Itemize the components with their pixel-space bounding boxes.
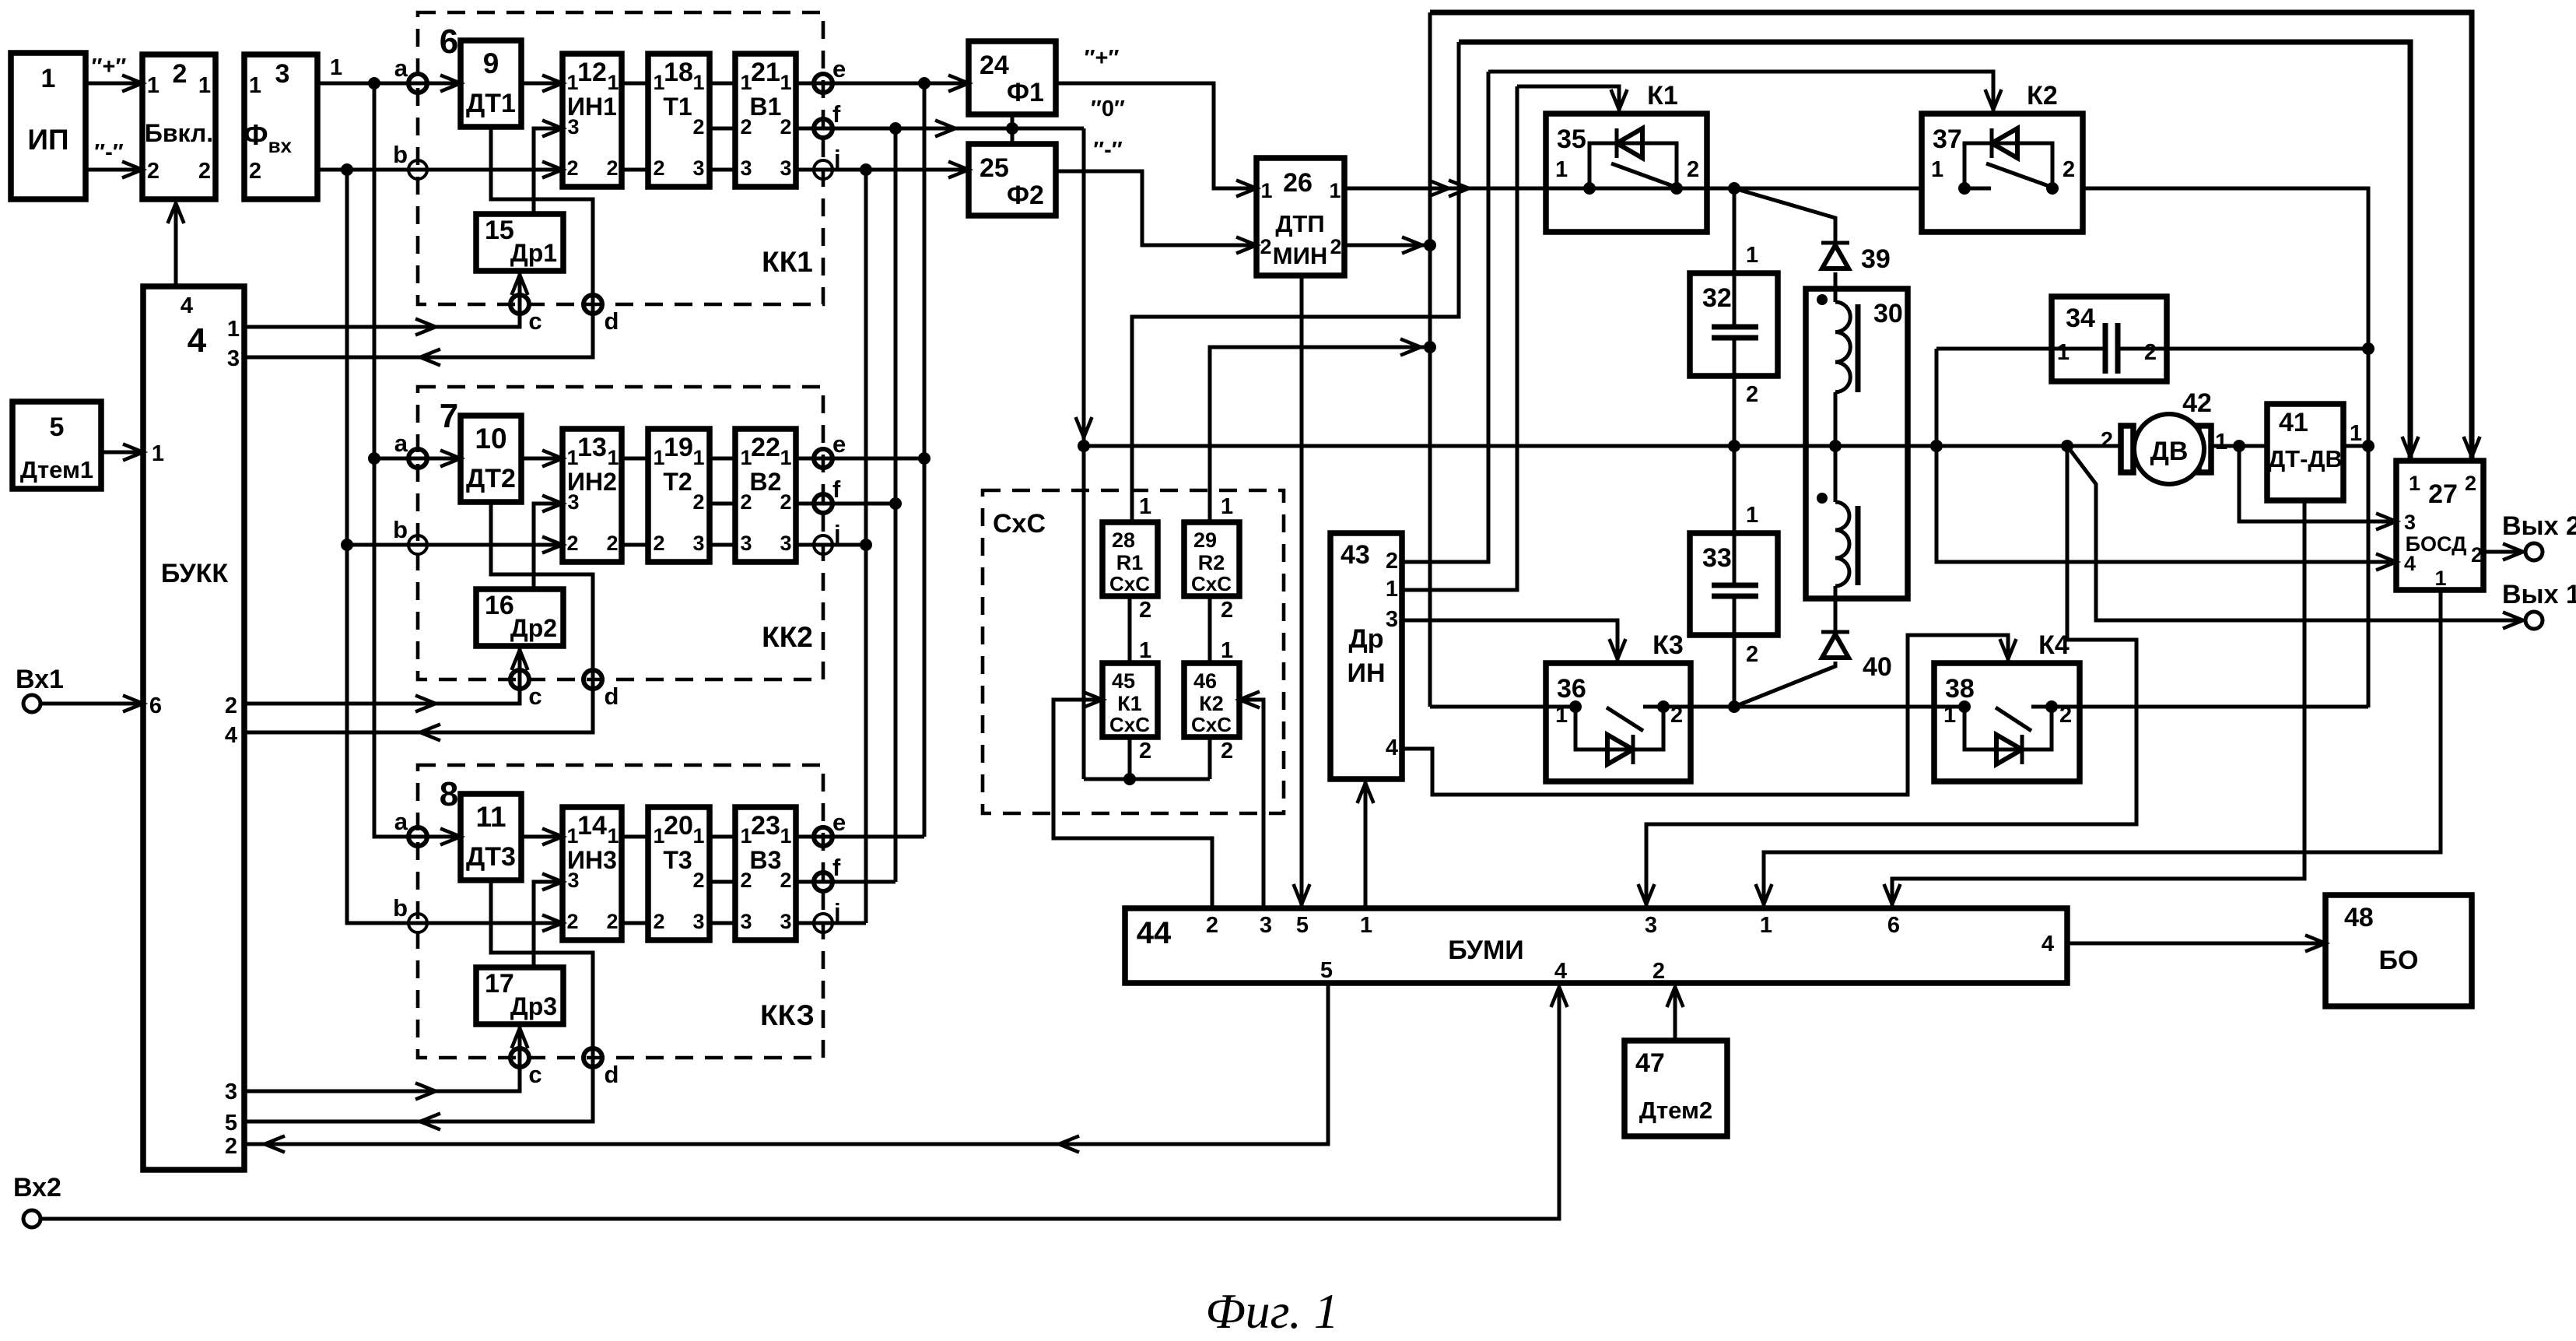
svg-text:25: 25	[980, 153, 1009, 183]
junction a-rail riser	[368, 77, 380, 90]
svg-text:6: 6	[440, 23, 458, 61]
block 27 БОСД (speed feedback unit)	[2396, 461, 2483, 590]
svg-text:26: 26	[1283, 168, 1313, 198]
wire contact stubs relay 38	[1934, 705, 1964, 709]
wire Т2.2 → В2.2	[710, 502, 735, 506]
svg-text:1: 1	[1360, 913, 1372, 938]
wire БУМИ.4 → БО	[2067, 942, 2325, 946]
svg-text:7: 7	[440, 397, 458, 435]
capacitor 34 plates	[2103, 323, 2108, 374]
svg-text:3: 3	[780, 156, 791, 180]
wire В3.1 → node e3	[796, 835, 924, 839]
dashed box KK3	[418, 765, 823, 1058]
wire БУМИ.2 → 45 input	[1053, 700, 1212, 908]
svg-text:1: 1	[1746, 243, 1758, 268]
wire Др2 top → ИН2.3	[534, 504, 563, 589]
wire riser 0-line to motor rail and СхС	[1082, 128, 1086, 779]
svg-text:1: 1	[607, 446, 619, 469]
wire cap34 left → rail riser	[1936, 347, 2105, 351]
block 45 К1 СхС	[1102, 663, 1158, 737]
svg-text:1: 1	[780, 446, 791, 469]
svg-text:2: 2	[566, 532, 578, 555]
svg-text:9: 9	[483, 47, 499, 79]
svg-text:Вых 2: Вых 2	[2502, 511, 2576, 541]
wire БУКК → node c3	[244, 1058, 520, 1091]
svg-text:2: 2	[173, 59, 188, 89]
svg-text:К4: К4	[2038, 630, 2070, 660]
svg-text:1: 1	[249, 73, 261, 98]
junction b-rail riser	[341, 163, 353, 176]
transformer 30 core upper	[1856, 304, 1861, 392]
wire node c1 → Др1 bottom	[518, 271, 522, 304]
svg-text:К1: К1	[1117, 692, 1142, 715]
node b (channel 2)	[408, 535, 427, 554]
wire ИП.2 → Бвкл.2 ("−")	[86, 168, 142, 172]
svg-text:23: 23	[751, 811, 780, 841]
switch inside relay 35	[1611, 163, 1675, 187]
svg-text:1: 1	[152, 441, 164, 466]
wire В2.2 → node f2	[796, 502, 895, 506]
wire a-branch channel 2	[374, 457, 418, 461]
block 9 ДТ1 (current sensor)	[461, 40, 521, 127]
svg-text:e: e	[832, 55, 846, 82]
svg-text:10: 10	[475, 423, 506, 455]
svg-text:БУМИ: БУМИ	[1448, 936, 1524, 965]
block 15 Др1 (choke)	[476, 214, 563, 271]
node c (channel 2)	[510, 670, 529, 689]
svg-text:21: 21	[751, 58, 780, 87]
svg-text:19: 19	[664, 433, 693, 462]
node f (channel 3)	[814, 872, 832, 891]
svg-text:2: 2	[566, 156, 578, 180]
wire ДТП МИН.1 → K1.1	[1344, 187, 1546, 191]
wire K1K2 line → diode 39 → transformer 30	[1734, 188, 1835, 243]
wire motor junction → Вых1	[2067, 446, 2523, 620]
dashed box KK1	[418, 12, 823, 304]
svg-text:2: 2	[653, 910, 664, 933]
svg-text:5: 5	[1320, 958, 1333, 983]
svg-text:ДТ-ДВ: ДТ-ДВ	[2268, 445, 2343, 472]
svg-text:Вх2: Вх2	[13, 1173, 61, 1202]
block 22 В2 (rectifier)	[735, 429, 796, 562]
block 16 Др2 (choke)	[476, 589, 563, 646]
block 5 Дтем1 (temperature sensor 1)	[12, 402, 101, 489]
wire ИН1.2 → Т1.2	[622, 168, 648, 172]
svg-text:1: 1	[1260, 179, 1272, 202]
svg-text:47: 47	[1635, 1048, 1665, 1078]
svg-text:1: 1	[227, 317, 240, 342]
wire f → x1393 riser (0 line)	[935, 121, 955, 137]
transformer 30 upper winding	[1835, 302, 1850, 392]
svg-text:ДТ2: ДТ2	[466, 464, 516, 493]
svg-text:1: 1	[2057, 340, 2070, 365]
svg-text:2: 2	[1330, 235, 1341, 258]
svg-text:Др1: Др1	[510, 239, 557, 267]
svg-text:Бвкл.: Бвкл.	[145, 119, 213, 147]
svg-text:2: 2	[740, 490, 752, 514]
svg-text:3: 3	[692, 156, 704, 180]
svg-text:1: 1	[692, 824, 704, 848]
svg-text:1: 1	[147, 73, 159, 98]
svg-text:1: 1	[1746, 503, 1758, 528]
svg-text:36: 36	[1557, 674, 1586, 704]
svg-text:3: 3	[227, 346, 240, 371]
svg-text:b: b	[393, 894, 408, 921]
svg-text:3: 3	[275, 59, 290, 89]
svg-text:b: b	[393, 516, 408, 543]
svg-text:СхС: СхС	[993, 509, 1046, 539]
block 47 Дтем2 (temperature sensor 2)	[1624, 1041, 1727, 1136]
wire БУКК.4 → Бвкл. bottom	[174, 203, 178, 286]
wire Др3 top → ИН3.3	[534, 882, 563, 967]
block 19 Т2 (transformer/trigger)	[648, 429, 710, 562]
wire Т1.1 → В1.1	[710, 82, 735, 86]
svg-text:1: 1	[2434, 567, 2446, 590]
svg-text:2: 2	[692, 115, 704, 139]
wire В1.1 → node e1	[796, 82, 969, 86]
svg-text:14: 14	[577, 811, 607, 841]
svg-text:f: f	[832, 100, 841, 128]
svg-text:2: 2	[1260, 235, 1271, 258]
svg-text:СхС: СхС	[1191, 572, 1232, 595]
wire ДТ3 bottom → node d3	[491, 880, 593, 1058]
svg-text:4: 4	[2404, 552, 2416, 575]
svg-text:К2: К2	[2027, 81, 2058, 111]
svg-text:24: 24	[980, 51, 1009, 80]
capacitor 33 plates	[1712, 583, 1758, 588]
wire rail БОСД.2 (y16)	[1430, 12, 2472, 461]
svg-text:3: 3	[692, 910, 704, 933]
wire a-rail: Фвх.3 → node a → ДТ1	[317, 82, 461, 86]
node b (channel 1)	[408, 160, 427, 179]
terminal Вх1	[23, 695, 40, 712]
svg-text:2: 2	[1746, 382, 1758, 407]
block 46 К2 СхС	[1184, 663, 1239, 737]
wire Т3.2 → В3.2	[710, 880, 735, 884]
wire transformer trunk	[1834, 272, 1838, 302]
switch inside relay 37	[1986, 163, 2051, 187]
block 12 ИН1 (inverter)	[563, 54, 622, 187]
svg-text:c: c	[528, 683, 541, 710]
wire Ф1-Ф2 connector	[1011, 114, 1015, 144]
junction contacts relay 36	[1569, 700, 1582, 713]
wire motor → ДТ-ДВ	[2211, 444, 2267, 448]
svg-text:БУКК: БУКК	[161, 559, 228, 588]
block 23 В3 (rectifier)	[735, 807, 796, 940]
relay 36 box (contact К3)	[1546, 663, 1691, 781]
block 10 ДТ2 (current sensor)	[461, 416, 521, 502]
svg-text:20: 20	[664, 811, 693, 841]
wire Др ИН.3 → K3 coil	[1402, 620, 1617, 663]
svg-text:43: 43	[1341, 540, 1370, 570]
svg-text:2: 2	[740, 115, 752, 139]
node j (channel 2)	[814, 535, 832, 554]
switch inside relay 36	[1607, 707, 1643, 731]
svg-text:32: 32	[1702, 283, 1732, 313]
block 1 ИП (power source)	[11, 53, 86, 199]
svg-text:1: 1	[607, 71, 619, 94]
svg-text:2: 2	[2465, 472, 2476, 495]
svg-text:3: 3	[225, 1079, 237, 1104]
block 17 Др3 (choke)	[476, 967, 563, 1024]
node c (channel 1)	[510, 295, 529, 314]
wire 45/46 outputs → 0-riser	[1128, 737, 1132, 779]
svg-text:ДТП: ДТП	[1275, 210, 1324, 237]
svg-text:5: 5	[50, 412, 65, 442]
svg-text:2: 2	[1139, 598, 1151, 623]
block 26 ДТП МИН (min current-voltage sensor)	[1256, 158, 1344, 276]
svg-text:6: 6	[1887, 913, 1900, 938]
svg-text:e: e	[832, 809, 846, 836]
svg-text:ДВ: ДВ	[2150, 437, 2189, 466]
svg-text:3: 3	[740, 910, 752, 933]
dashed box СхС	[983, 490, 1284, 813]
svg-text:48: 48	[2344, 903, 2374, 932]
wire K3.2 → K4.1	[1691, 705, 1934, 709]
svg-text:ИП: ИП	[27, 124, 68, 156]
wire Вх2 → БУМИ.4	[40, 987, 1559, 1219]
node b (channel 3)	[408, 914, 427, 932]
svg-text:4: 4	[225, 723, 237, 748]
svg-text:2: 2	[2063, 157, 2075, 182]
svg-text:6: 6	[149, 693, 162, 718]
wire b-rail: Фвх.2 → node b → ИН1.2	[317, 168, 563, 172]
transformer 30 lower winding	[1835, 502, 1849, 586]
svg-text:В2: В2	[750, 468, 782, 496]
svg-text:3: 3	[740, 156, 752, 180]
wire transformer 30 → diode 40 → K3K4 line	[1734, 662, 1835, 707]
svg-text:2: 2	[780, 869, 791, 892]
svg-text:В1: В1	[750, 93, 782, 121]
wire cap34 right → riser x3044	[2118, 347, 2368, 351]
svg-text:1: 1	[2350, 421, 2362, 446]
block 4 БУКК (channel switching control unit)	[143, 286, 244, 1170]
svg-text:27: 27	[2428, 479, 2458, 509]
relay 37 box (contact К2)	[1922, 114, 2083, 232]
svg-text:4: 4	[188, 321, 207, 360]
svg-text:2: 2	[1221, 739, 1233, 764]
svg-text:1: 1	[1760, 913, 1772, 938]
svg-text:Дтем2: Дтем2	[1639, 1097, 1712, 1124]
block 44 БУМИ (control unit)	[1125, 908, 2067, 983]
wire x1838 → K3.1	[1430, 705, 1546, 709]
block 20 Т3 (transformer/trigger)	[648, 807, 710, 940]
svg-text:f: f	[832, 854, 841, 881]
node e (channel 1)	[814, 74, 832, 93]
wire Др ИН.4 → K4 coil	[1402, 635, 2008, 795]
svg-text:В3: В3	[750, 846, 782, 874]
svg-text:35: 35	[1557, 125, 1586, 154]
svg-text:СхС: СхС	[1191, 713, 1232, 736]
svg-text:d: d	[605, 683, 619, 710]
wire Т3.3 → В3.3	[710, 921, 735, 925]
svg-text:Ф1: Ф1	[1007, 78, 1044, 107]
svg-text:R2: R2	[1198, 551, 1225, 574]
node a (channel 3)	[408, 827, 427, 846]
node d (channel 2)	[584, 670, 602, 689]
wire Т2.3 → В2.3	[710, 543, 735, 547]
svg-text:d: d	[605, 1061, 619, 1088]
wire node d2 → БУКК	[244, 679, 593, 732]
svg-text:Т2: Т2	[663, 468, 692, 496]
svg-text:1: 1	[692, 71, 704, 94]
svg-text:1: 1	[1139, 638, 1151, 663]
svg-text:1: 1	[198, 73, 211, 98]
wire e-riser (e1-e2-e3)	[923, 83, 927, 837]
block 30 transformer	[1806, 289, 1908, 599]
svg-text:Др3: Др3	[510, 992, 557, 1020]
svg-text:2: 2	[1206, 913, 1218, 938]
svg-text:29: 29	[1193, 528, 1217, 552]
node f (channel 1)	[814, 119, 832, 138]
wire R2 top branch	[1210, 347, 1430, 522]
wire rail K2 coil (y92)	[1488, 72, 1993, 114]
svg-text:e: e	[832, 430, 846, 458]
block 41 ДТ-ДВ (motor current sensor)	[2267, 404, 2343, 500]
svg-text:Вых 1: Вых 1	[2502, 580, 2576, 609]
wire riser x1950 → Др ИН.1	[1402, 86, 1517, 590]
wire Т1.3 → В1.3	[710, 168, 735, 172]
svg-text:3: 3	[780, 910, 791, 933]
svg-text:f: f	[832, 476, 841, 503]
svg-text:1: 1	[1555, 157, 1568, 182]
wire ДТП МИН bottom → БУМИ.5	[1300, 276, 1304, 908]
svg-text:1: 1	[607, 824, 619, 848]
svg-text:2: 2	[2101, 428, 2113, 453]
svg-text:2: 2	[606, 156, 618, 180]
wire motor supply rail (0-line)	[1084, 444, 2121, 448]
svg-text:1: 1	[1221, 494, 1233, 519]
node c (channel 3)	[510, 1048, 529, 1067]
wire ДТП МИН.2 → riser x1838	[1344, 244, 1430, 247]
transformer 30 core lower	[1856, 506, 1861, 585]
wire ИН2.1 → Т2.1	[622, 457, 648, 461]
svg-text:2: 2	[1652, 959, 1665, 984]
node d (channel 1)	[584, 295, 602, 314]
node e (channel 3)	[814, 827, 832, 846]
block 11 ДТ3 (current sensor)	[461, 794, 521, 880]
svg-text:2: 2	[692, 490, 704, 514]
svg-text:3: 3	[1645, 913, 1657, 938]
wire В2.1 → node e2	[796, 457, 924, 461]
switch inside relay 38	[1996, 707, 2031, 731]
svg-text:2: 2	[1139, 739, 1151, 764]
svg-text:Т1: Т1	[663, 93, 692, 121]
svg-text:2: 2	[740, 869, 752, 892]
wire ИН3.2 → Т3.2	[622, 921, 648, 925]
block 13 ИН2 (inverter)	[563, 429, 622, 562]
node a (channel 1)	[408, 74, 427, 93]
svg-text:33: 33	[1702, 543, 1732, 573]
svg-text:2: 2	[653, 532, 664, 555]
wire node a → ДТ2	[418, 457, 461, 461]
svg-text:ККЗ: ККЗ	[760, 999, 815, 1031]
svg-text:2: 2	[225, 693, 237, 718]
wire Дтем1 → БУКК.1	[101, 451, 143, 455]
wire node a → ДТ3	[418, 835, 461, 839]
diode inside relay 37	[1964, 143, 2052, 188]
svg-text:1: 1	[1931, 157, 1943, 182]
wire БУКК → node c2	[244, 679, 520, 704]
wire b-branch channel 2	[347, 543, 418, 547]
capacitor 34 block	[2052, 297, 2167, 381]
svg-text:5: 5	[225, 1111, 237, 1136]
wire БУМИ.1 → Др ИН bottom	[1364, 779, 1368, 908]
svg-text:2: 2	[2144, 340, 2157, 365]
wire ИН1.1 → Т1.1	[622, 82, 648, 86]
svg-text:2: 2	[566, 910, 578, 933]
block 24 Ф1 (shaper 1)	[969, 41, 1056, 114]
svg-text:13: 13	[577, 433, 607, 462]
svg-text:ИН: ИН	[1348, 658, 1386, 688]
svg-text:a: a	[394, 808, 408, 835]
wire В3.3 → node j3	[796, 921, 866, 925]
svg-text:3: 3	[1386, 607, 1398, 632]
svg-text:c: c	[528, 307, 541, 335]
svg-text:″-″: ″-″	[1093, 138, 1123, 163]
capacitor 32 block	[1690, 273, 1778, 376]
svg-text:j: j	[833, 145, 841, 172]
wire Т2.1 → В2.1	[710, 457, 735, 461]
svg-text:БО: БО	[2379, 946, 2419, 975]
svg-text:1: 1	[2215, 430, 2227, 455]
wire riser x1913 → Др ИН.2	[1402, 72, 1488, 562]
diode inside relay 36	[1575, 707, 1663, 749]
wire ИП.1 → Бвкл.1 ("+")	[86, 82, 142, 86]
svg-text:2: 2	[653, 156, 664, 180]
wire K2.2 → riser x3044	[2083, 188, 2368, 707]
wire ДТ3 → ИН3.1	[521, 835, 563, 839]
svg-text:R1: R1	[1116, 551, 1144, 574]
svg-text:38: 38	[1945, 674, 1975, 704]
diode 39	[1821, 241, 1849, 245]
wire Др1 top → ИН1.3	[534, 128, 563, 214]
node e (channel 2)	[814, 449, 832, 468]
svg-text:4: 4	[1554, 959, 1567, 984]
svg-text:j: j	[833, 520, 841, 547]
wire ДТ-ДВ.1 → riser x3044	[2343, 444, 2368, 448]
svg-text:КК1: КК1	[762, 246, 813, 278]
svg-text:2: 2	[249, 159, 261, 184]
wire K1.2 → K2.1	[1707, 187, 1922, 191]
wire R1.2 → 45.1	[1128, 596, 1132, 663]
wire K1 contact line segment	[1546, 187, 1707, 191]
block 43 Др ИН (inverter choke)	[1330, 533, 1402, 779]
svg-text:a: a	[394, 430, 408, 457]
node j (channel 1)	[814, 160, 832, 179]
wire Т1.2 → В1.2	[710, 127, 735, 131]
block 3 Фвх (input filter)	[244, 54, 317, 199]
terminal Вх2	[23, 1210, 40, 1227]
block 29 R2 СхС	[1184, 522, 1239, 596]
svg-text:2: 2	[606, 532, 618, 555]
wire node b → ИН3.2	[418, 921, 563, 925]
wire node c2 → Др2 bottom	[518, 646, 522, 679]
svg-text:46: 46	[1193, 669, 1217, 693]
svg-text:1: 1	[1386, 577, 1398, 602]
block 25 Ф2 (shaper 2)	[969, 144, 1056, 216]
wire ДТ1 → ИН1.1	[521, 82, 563, 86]
wire Ф1 → ДТП МИН.1 (+)	[1056, 83, 1256, 188]
svg-text:Ф2: Ф2	[1007, 181, 1044, 210]
svg-text:Фиг. 1: Фиг. 1	[1205, 1283, 1339, 1339]
block 21 В1 (rectifier)	[735, 54, 796, 187]
svg-text:1: 1	[780, 824, 791, 848]
svg-text:28: 28	[1112, 528, 1135, 552]
block 14 ИН3 (inverter)	[563, 807, 622, 940]
wire Ф2 → ДТП МИН.2 (−)	[1056, 171, 1256, 245]
wire R2.2 → 46.1	[1208, 596, 1212, 663]
